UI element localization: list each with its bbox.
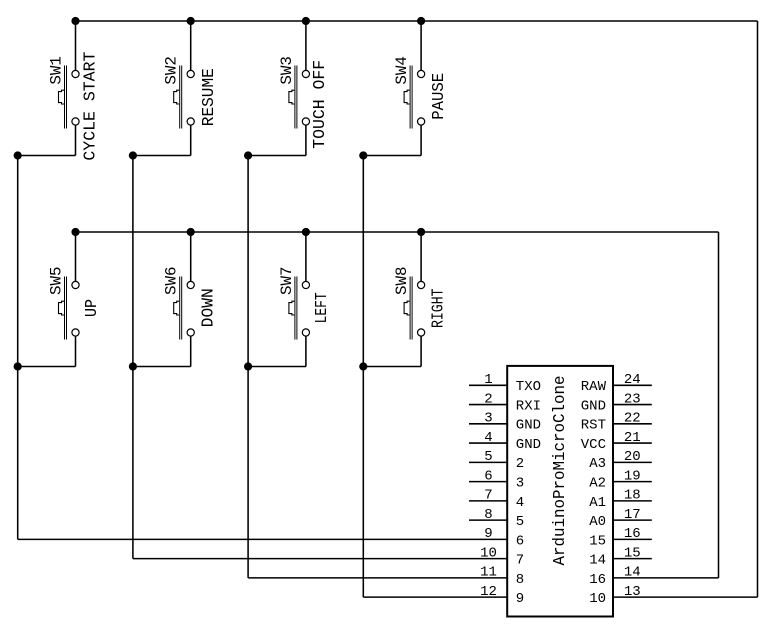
svg-text:6: 6 [516,533,524,549]
U1 left pin 2 stub [469,404,507,406]
svg-text:18: 18 [624,488,641,504]
svg-text:5: 5 [484,449,492,465]
svg-text:SW2: SW2 [163,56,181,85]
svg-text:20: 20 [624,449,641,465]
junction: row B bus / SW7 column [302,228,310,236]
svg-text:GND: GND [516,418,541,434]
junction: row A bus / SW2 column [187,17,195,25]
U1 left pin 8 stub [469,519,507,521]
svg-text:A0: A0 [589,514,606,530]
wire: SW2 bottom horizontal to column bus [133,155,191,157]
wire: column 2 bus vertical [132,156,134,559]
wire: SW6 bottom horizontal to column bus [133,366,191,368]
junction: column 3 bus / SW3 bottom [244,151,252,159]
svg-text:14: 14 [624,565,641,581]
wire: row A bus into U1 pin 13 [613,596,758,598]
junction: row A bus / SW1 column [71,17,79,25]
svg-text:7: 7 [484,488,492,504]
wire: column 3 bus into U1 pin 11 [248,577,507,579]
wire: SW4 top terminal to row bus [420,21,422,70]
wire: SW2 bottom terminal down [190,125,192,155]
wire: SW3 top terminal to row bus [305,21,307,70]
wire: SW3 bottom horizontal to column bus [248,155,306,157]
switch SW2 pushbutton symbol [174,66,195,129]
U1 right pin 24 stub [613,384,652,386]
svg-text:22: 22 [624,411,641,427]
junction: row B bus / SW5 column [71,228,79,236]
wire: SW6 bottom terminal down [190,336,192,366]
junction: column 1 bus / SW1 bottom [14,151,22,159]
junction: row A bus / SW4 column [417,17,425,25]
junction: column 4 bus / SW4 bottom [359,151,367,159]
svg-text:16: 16 [624,526,641,542]
wire: SW5 bottom terminal down [75,336,77,366]
svg-text:23: 23 [624,391,641,407]
U1 right pin 22 stub [613,423,652,425]
svg-text:6: 6 [484,468,492,484]
U1 right pin 19 stub [613,481,652,483]
wire: second row bus (row B) horizontal rail [76,231,719,233]
svg-text:1: 1 [484,372,492,388]
wire: SW1 bottom terminal down [75,125,77,155]
svg-text:LEFT: LEFT [312,292,331,323]
wire: SW2 top terminal to row bus [190,21,192,70]
wire: SW1 bottom horizontal to column bus [18,155,76,157]
junction: column 2 bus / SW6 bottom [129,362,137,370]
svg-text:SW1: SW1 [47,56,65,85]
svg-text:CYCLE START: CYCLE START [81,52,100,161]
svg-text:13: 13 [624,584,641,600]
svg-text:SW8: SW8 [393,267,411,296]
svg-text:14: 14 [589,553,606,569]
svg-text:10: 10 [480,545,497,561]
switch SW4 pushbutton symbol [404,66,425,129]
wire: column 3 bus vertical [247,156,249,578]
wire: SW5 top terminal to row bus [75,232,77,281]
wire: row B bus into U1 pin 14 [613,577,719,579]
svg-text:VCC: VCC [581,437,606,453]
wire: SW8 bottom terminal down [420,336,422,366]
svg-text:12: 12 [480,584,497,600]
wire: SW4 bottom terminal down [420,125,422,155]
svg-text:A3: A3 [589,456,606,472]
svg-text:8: 8 [484,507,492,523]
svg-text:3: 3 [516,476,524,492]
svg-text:15: 15 [624,545,641,561]
svg-text:2: 2 [516,456,524,472]
svg-text:A2: A2 [589,476,606,492]
svg-text:4: 4 [484,430,492,446]
svg-text:SW4: SW4 [393,56,411,85]
svg-text:15: 15 [589,533,606,549]
svg-text:A1: A1 [589,495,606,511]
svg-text:9: 9 [484,526,492,542]
switch SW6 pushbutton symbol [174,277,195,340]
svg-text:RST: RST [581,418,606,434]
switch SW5 pushbutton symbol [59,277,80,340]
U1 left pin 6 stub [469,481,507,483]
svg-text:19: 19 [624,468,641,484]
svg-text:GND: GND [516,437,541,453]
junction: row A bus / SW3 column [302,17,310,25]
junction: column 4 bus / SW8 bottom [359,362,367,370]
wire: SW3 bottom terminal down [305,125,307,155]
svg-text:16: 16 [589,572,606,588]
junction: column 3 bus / SW7 bottom [244,362,252,370]
U1 right pin 17 stub [613,519,652,521]
svg-text:RESUME: RESUME [199,68,218,126]
U1 right pin 16 stub [613,538,652,540]
svg-text:3: 3 [484,411,492,427]
U1 right pin 21 stub [613,442,652,444]
wire: column 4 bus into U1 pin 12 [363,596,507,598]
svg-text:ArduinoProMicroClone: ArduinoProMicroClone [551,376,570,566]
junction: column 1 bus / SW5 bottom [14,362,22,370]
U1 left pin 5 stub [469,461,507,463]
svg-text:9: 9 [516,591,524,607]
junction: row B bus / SW8 column [417,228,425,236]
svg-text:4: 4 [516,495,524,511]
wire: column 1 bus into U1 pin 9 [18,538,508,540]
IC U1 ArduinoProMicroClone body [507,366,613,617]
wire: column 4 bus vertical [362,156,364,598]
wire: column 1 bus vertical [17,156,19,540]
svg-text:17: 17 [624,507,641,523]
switch SW3 pushbutton symbol [289,66,310,129]
switch SW1 pushbutton symbol [59,66,80,129]
svg-text:RIGHT: RIGHT [429,288,448,328]
svg-text:SW5: SW5 [47,267,65,296]
U1 left pin 7 stub [469,500,507,502]
wire: SW8 top terminal to row bus [420,232,422,281]
svg-text:21: 21 [624,430,641,446]
wire: column 2 bus into U1 pin 10 [133,558,507,560]
wire: SW4 bottom horizontal to column bus [363,155,421,157]
svg-text:SW6: SW6 [163,267,181,296]
svg-text:11: 11 [480,565,497,581]
U1 right pin 20 stub [613,461,652,463]
U1 left pin 4 stub [469,442,507,444]
wire: SW1 top terminal to row bus [75,21,77,70]
switch SW7 pushbutton symbol [289,277,310,340]
svg-text:2: 2 [484,391,492,407]
wire: SW7 bottom horizontal to column bus [248,366,306,368]
wire: SW5 bottom horizontal to column bus [18,366,76,368]
svg-text:10: 10 [589,591,606,607]
svg-text:TXO: TXO [516,379,541,395]
wire: top row bus (row A) horizontal rail [76,20,758,22]
svg-text:SW7: SW7 [278,267,296,296]
U1 left pin 3 stub [469,423,507,425]
svg-text:RXI: RXI [516,398,541,414]
switch SW8 pushbutton symbol [404,277,425,340]
svg-text:TOUCH OFF: TOUCH OFF [310,60,329,149]
U1 right pin 15 stub [613,558,652,560]
svg-text:24: 24 [624,372,641,388]
svg-text:RAW: RAW [581,379,607,395]
wire: SW8 bottom horizontal to column bus [363,366,421,368]
U1 left pin 1 stub [469,384,507,386]
junction: column 2 bus / SW2 bottom [129,151,137,159]
svg-text:8: 8 [516,572,524,588]
svg-text:GND: GND [581,398,606,414]
wire: SW7 top terminal to row bus [305,232,307,281]
junction: row B bus / SW6 column [187,228,195,236]
wire: row B bus right vertical down to pin 14 [718,232,720,578]
svg-text:7: 7 [516,553,524,569]
wire: SW6 top terminal to row bus [190,232,192,281]
svg-text:PAUSE: PAUSE [429,73,448,120]
svg-text:5: 5 [516,514,524,530]
svg-text:UP: UP [82,299,101,317]
svg-text:DOWN: DOWN [198,288,217,327]
wire: row A bus right vertical down to pin 13 [757,21,759,597]
U1 right pin 23 stub [613,404,652,406]
svg-text:SW3: SW3 [278,56,296,85]
U1 right pin 18 stub [613,500,652,502]
wire: SW7 bottom terminal down [305,336,307,366]
